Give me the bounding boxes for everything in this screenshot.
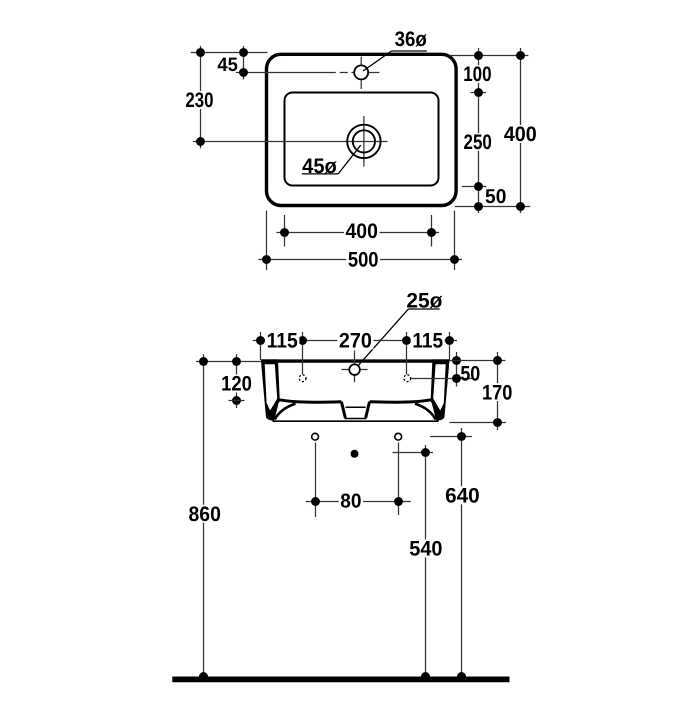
dimension line 100/250/50 (plan right) (478, 48, 480, 213)
dimension 230 (plan) (200, 46, 202, 148)
dimension line 115/270/115 (253, 340, 457, 342)
svg-text:80: 80 (340, 490, 361, 512)
svg-text:400: 400 (346, 220, 378, 243)
extension tick inner-top (plan, right) (471, 92, 487, 94)
label 100 (462, 65, 494, 83)
extension tick inner-bottom (plan, right) (462, 186, 487, 188)
basin inner bowl (plan) (285, 93, 439, 186)
svg-text:540: 540 (409, 538, 442, 561)
dimension 170 (497, 352, 499, 430)
waste hole dot (351, 450, 359, 458)
extension line 500-right (plan bottom) (454, 211, 456, 271)
extension elevation top-right (449, 360, 506, 362)
drain box right slant (366, 402, 370, 418)
drain centerline horizontal (193, 141, 388, 143)
svg-text:640: 640 (445, 485, 480, 508)
svg-text:45ø: 45ø (302, 155, 337, 178)
dimension 120 (236, 354, 238, 408)
extension line top edge (plan, left) (191, 52, 268, 54)
svg-text:100: 100 (463, 63, 491, 86)
dimension 400 horizontal (plan bottom) (276, 232, 439, 234)
extension 50-elev line (412, 378, 474, 380)
tap hole circle (elevation) (349, 364, 360, 375)
svg-text:36ø: 36ø (395, 28, 427, 51)
basin top edge (elevation) (261, 359, 449, 362)
svg-text:50: 50 (485, 186, 506, 208)
dimension 640 (461, 428, 463, 679)
drain outer circle (347, 125, 380, 158)
extension line bottom edge (plan, right) (455, 206, 530, 208)
label 115 right (411, 331, 445, 349)
extension elevation bottom-right (450, 422, 506, 424)
left foot blob (266, 400, 279, 421)
svg-text:230: 230 (185, 89, 213, 112)
extension left-inner of 115 dim (302, 332, 304, 374)
svg-text:115: 115 (267, 329, 298, 352)
basin bottom line (elevation) (273, 420, 439, 422)
extension line faucet center (plan, left) (236, 72, 244, 74)
dimension 400 vertical (plan right) (520, 48, 522, 213)
extension 540 top (393, 452, 434, 454)
dimension 540 (425, 445, 427, 679)
overflow hole right (dashed) (404, 375, 411, 382)
leader 45ø (302, 173, 338, 175)
skirt curve left (275, 404, 296, 420)
left wall white sliver (265, 364, 278, 410)
dimension 50 (elevation) (456, 352, 458, 387)
faucet hole centerline horizontal (244, 72, 380, 74)
mounting hole left (312, 433, 319, 440)
dimension 45 (plan) (243, 46, 245, 80)
drain box left slant (341, 402, 345, 418)
mounting hole left drop line (315, 443, 317, 518)
overflow hole left (dashed) (299, 375, 306, 382)
right wall (filled wedge) (431, 359, 450, 420)
svg-text:120: 120 (221, 373, 252, 396)
faucet hole centerline vertical (360, 57, 362, 89)
dimension 500 (plan bottom) (258, 259, 462, 261)
extension line top edge (plan, right) (450, 55, 528, 57)
svg-text:45: 45 (217, 54, 238, 76)
extension 640 top (430, 436, 472, 438)
svg-text:50: 50 (460, 362, 480, 385)
right foot blob (432, 400, 445, 421)
label 115 left (265, 331, 299, 349)
svg-text:500: 500 (348, 249, 379, 272)
svg-text:170: 170 (482, 381, 512, 404)
extension 860/120 top line (196, 361, 262, 363)
label 270 (337, 331, 373, 349)
extension right-inner of 115 dim (406, 332, 408, 374)
tap hole centerline horizontal (elevation) (341, 369, 367, 371)
mounting hole right drop line (398, 443, 400, 516)
extension line 400-right (plan bottom) (431, 215, 433, 247)
drain box bottom line (345, 418, 367, 420)
bowl line left (279, 400, 341, 402)
svg-text:860: 860 (189, 503, 221, 526)
floor line (172, 677, 509, 683)
tap hole centerline vertical (elevation) (354, 351, 356, 383)
skirt curve right (415, 404, 436, 420)
leader 25ø (408, 308, 439, 310)
right wall white sliver (433, 364, 446, 410)
svg-text:250: 250 (464, 131, 492, 154)
svg-text:270: 270 (339, 329, 372, 352)
svg-text:115: 115 (412, 329, 443, 352)
drain centerline vertical (363, 116, 365, 167)
extension line 500-left (plan bottom) (266, 211, 268, 271)
extension line 400-left (plan bottom) (284, 215, 286, 247)
drain box top line (346, 406, 366, 408)
label 250 (462, 133, 494, 151)
leader 36ø (392, 50, 427, 52)
dimension 860 (203, 354, 205, 679)
bowl line right (370, 400, 432, 402)
svg-text:25ø: 25ø (406, 290, 442, 313)
basin outer rim (plan) (267, 54, 457, 205)
svg-text:400: 400 (504, 123, 537, 146)
dimension 80 (306, 501, 411, 503)
mounting hole right (395, 433, 402, 440)
drain inner circle (353, 130, 375, 152)
left wall (filled wedge) (261, 359, 280, 420)
extension right-top of 115 dim (449, 332, 451, 360)
faucet hole (plan) (354, 65, 368, 79)
extension left-top of 115 dim (260, 332, 262, 360)
